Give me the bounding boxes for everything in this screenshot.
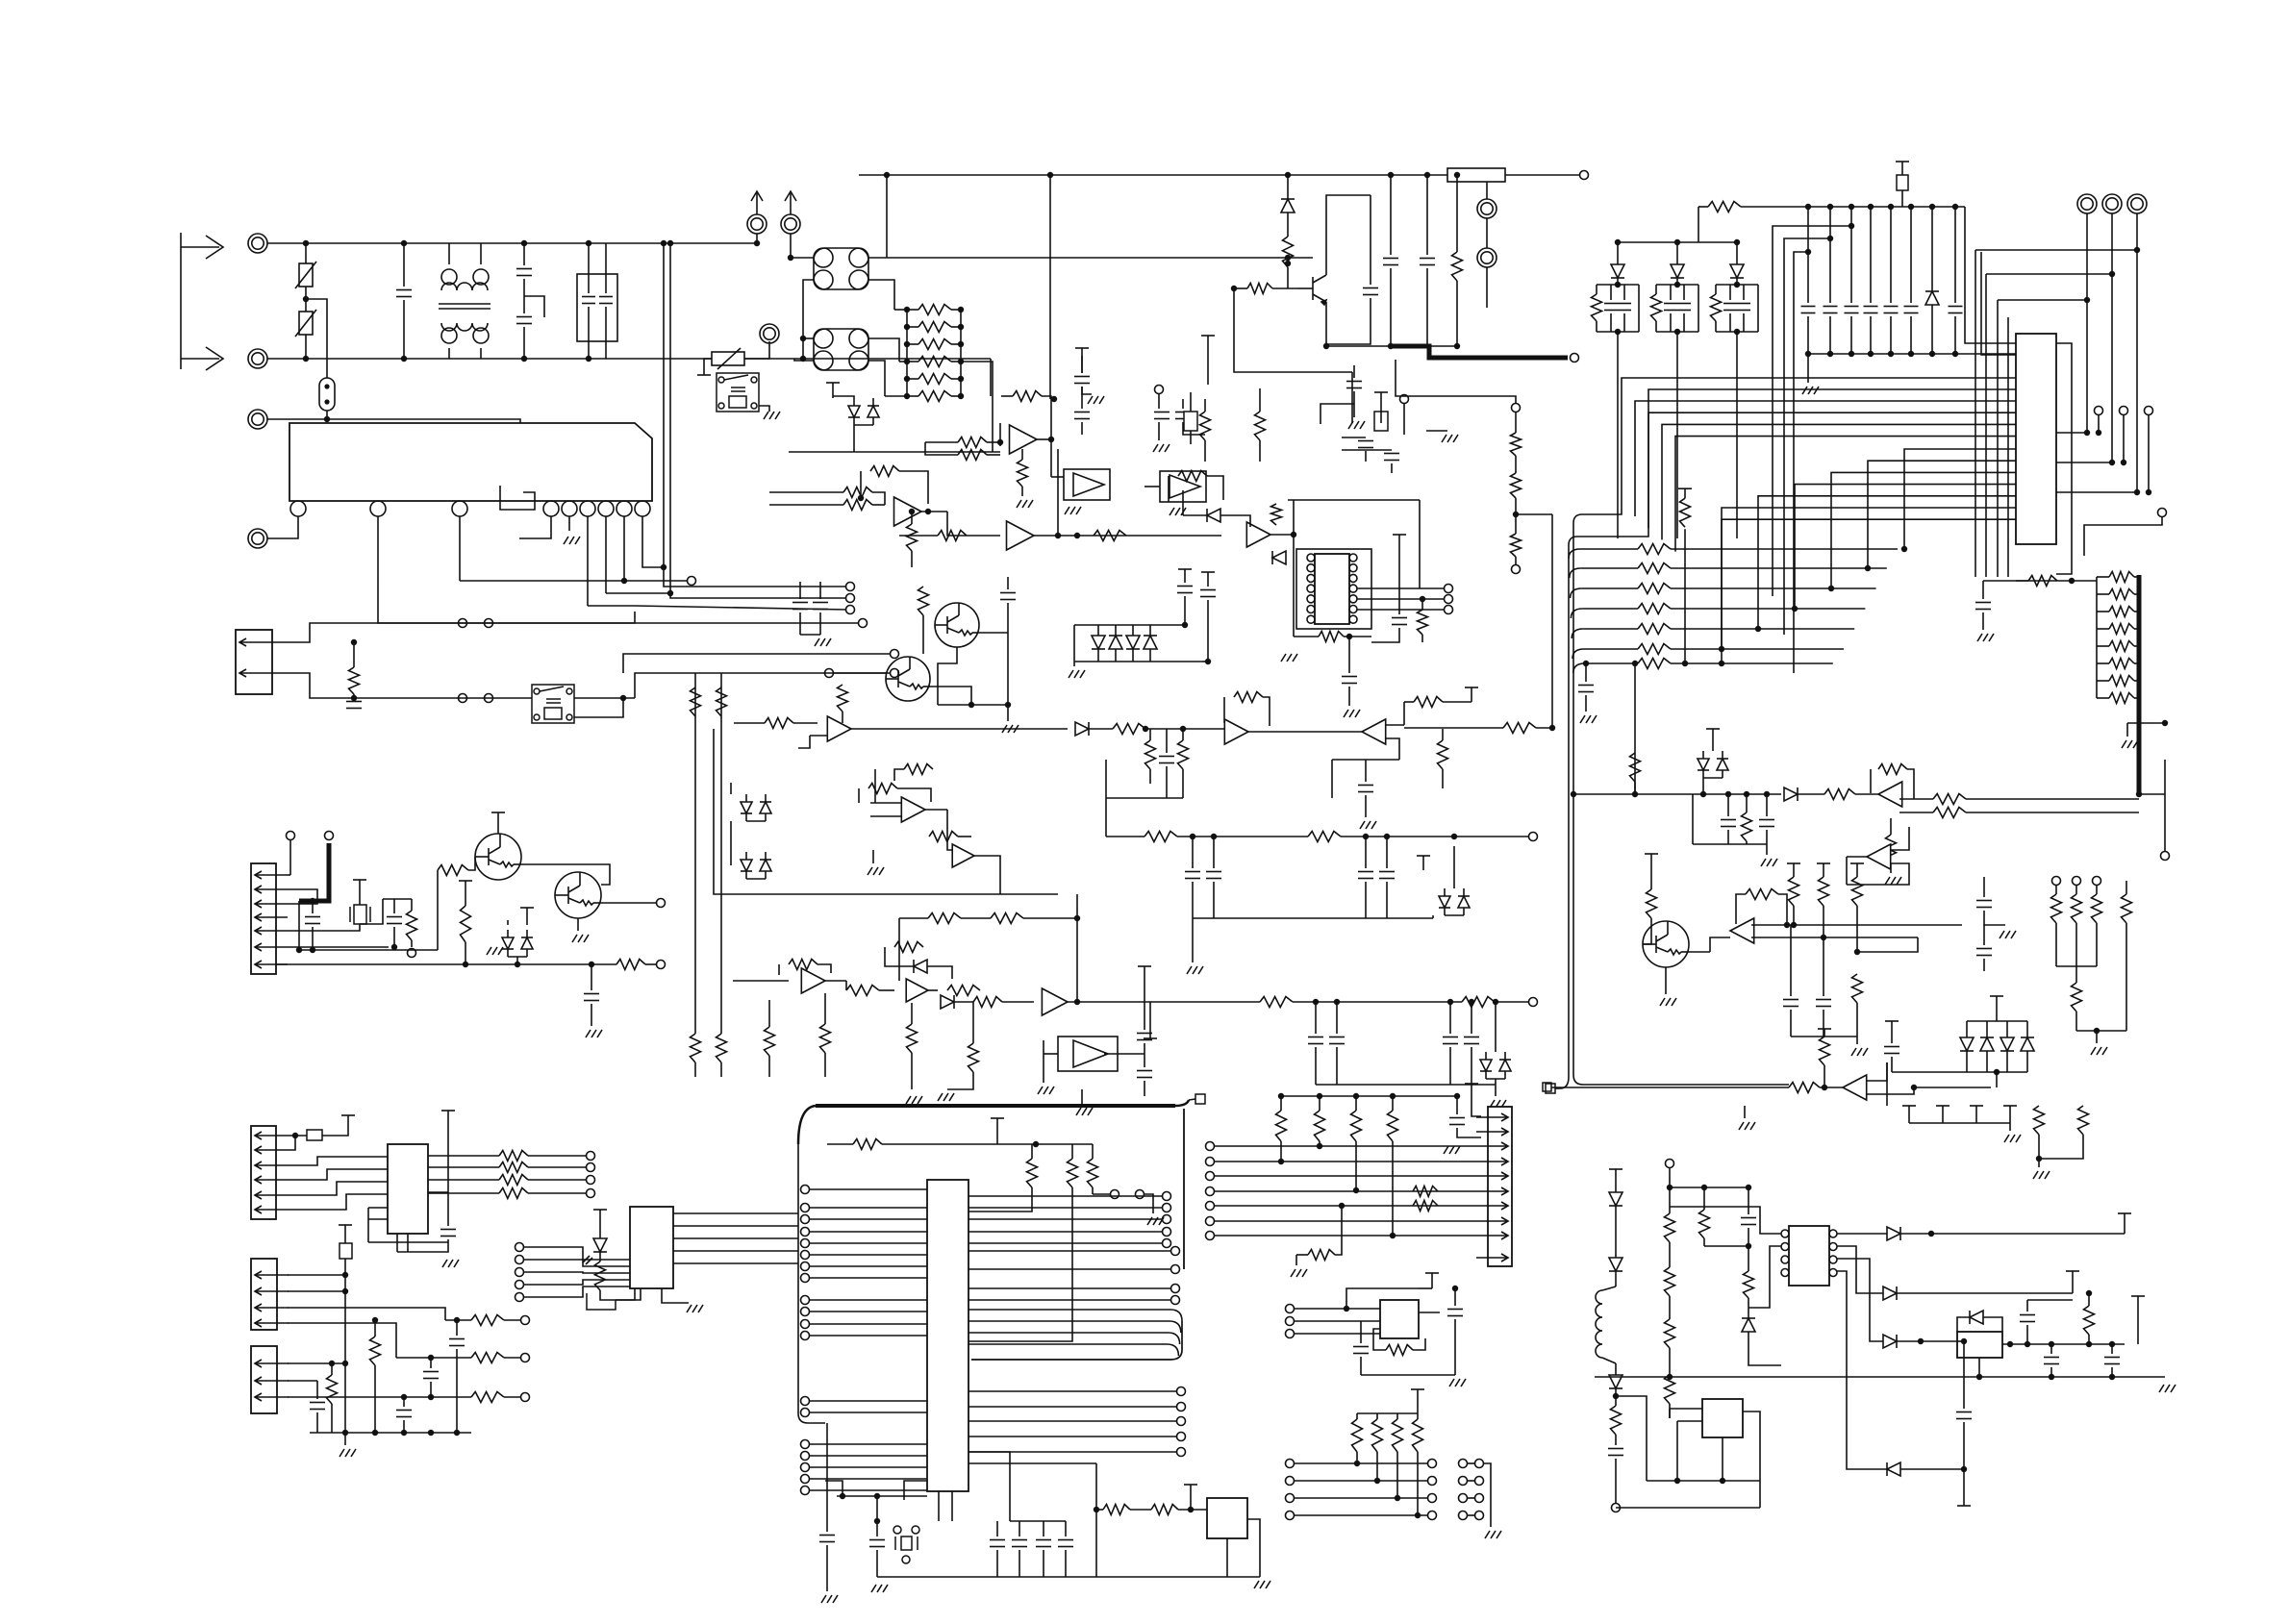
resistor R136 [1819, 877, 1829, 906]
ground [871, 1585, 888, 1592]
wire [904, 1481, 927, 1500]
resistor R74 [1511, 534, 1522, 557]
wire MCU fan bundle [971, 1321, 1182, 1360]
node tp MCU [801, 1215, 810, 1224]
node junction [1374, 1478, 1380, 1484]
wire row1131 [1551, 1087, 1789, 1088]
resistor R198 [1393, 1419, 1403, 1452]
resistor R170 [499, 1151, 528, 1162]
wire [1390, 175, 1392, 255]
wire [967, 535, 1000, 537]
node tp MCU [801, 1204, 810, 1212]
resistor R151 [2109, 589, 2134, 600]
wire [1319, 1141, 1321, 1146]
resistor R205 [1699, 1210, 1710, 1238]
wire to fuse [306, 299, 327, 378]
wire [1207, 476, 1223, 500]
wire [428, 1166, 499, 1168]
wire row r [1671, 648, 1844, 650]
wire rowJ [1215, 1220, 1476, 1222]
wire [1365, 882, 1367, 918]
wire [1360, 1321, 1362, 1343]
wire [2016, 580, 2097, 582]
wire U1 pin3 down [459, 516, 461, 581]
wire [899, 361, 907, 362]
node terminal [1445, 606, 1453, 614]
wire [1021, 487, 1023, 496]
node terminal [485, 619, 493, 628]
resistor R55 [1255, 412, 1266, 440]
wire [1449, 1047, 1451, 1085]
wire [524, 1280, 630, 1285]
wire [528, 1192, 587, 1194]
wire rowJ [1215, 1205, 1476, 1207]
diode D70 [1960, 1037, 1974, 1051]
wire row1190 [882, 1143, 1093, 1145]
capacitor C94 [1976, 949, 1992, 956]
wire [1443, 701, 1471, 703]
wire [1996, 1004, 1998, 1021]
wire [445, 1319, 471, 1321]
wire U6 out2 [1357, 598, 1445, 600]
wire [2026, 1325, 2028, 1344]
wire U16 out [673, 1250, 798, 1252]
wire U16 out [673, 1237, 798, 1239]
wire [1743, 313, 1745, 332]
stub [1957, 1469, 1971, 1506]
wire [1182, 729, 1184, 740]
resistor R24 [616, 960, 645, 970]
wire rail1490 [310, 1432, 471, 1434]
node tp [1155, 386, 1164, 394]
wire [360, 899, 383, 924]
node junction [1764, 791, 1770, 797]
resistor R40 [1283, 237, 1294, 267]
wire Lbus3 [1998, 299, 2088, 301]
ground [906, 1096, 922, 1104]
wire [1096, 1576, 1260, 1578]
node tp [1512, 565, 1521, 574]
wire rowJ [1215, 1175, 1476, 1177]
wire E5 to U1 [267, 516, 298, 538]
ground [1449, 1379, 1466, 1387]
wire [1468, 1514, 1474, 1516]
connector screw [2127, 194, 2147, 213]
node junction [1513, 512, 1519, 517]
wire [1149, 769, 1151, 784]
wire [445, 1396, 471, 1398]
wire [1471, 1002, 1472, 1034]
node U6 pinR [1349, 615, 1357, 623]
wire rowK [1295, 1497, 1427, 1499]
wire [1484, 1463, 1491, 1527]
ground [764, 412, 780, 419]
wire bus lower [1795, 485, 2016, 609]
wire [1486, 218, 1488, 248]
node junction [1908, 204, 1914, 210]
node junction [1928, 1231, 1934, 1237]
wire row1128 [1583, 1084, 1789, 1086]
wire [1900, 1468, 1964, 1470]
node junction [958, 324, 964, 330]
diode D86 [1883, 1287, 1897, 1300]
wire [1326, 298, 1371, 344]
diode D41 [1671, 264, 1684, 278]
node U20 pinL [1781, 1256, 1789, 1263]
wire [1829, 316, 1831, 354]
wire [1419, 1287, 1432, 1289]
wire [1710, 937, 1730, 952]
wire [1846, 1468, 1848, 1470]
wire relay右 [759, 406, 769, 412]
wire [1456, 175, 1458, 252]
node junction [1719, 646, 1724, 652]
wire [393, 899, 395, 913]
wire row corner [1572, 649, 1584, 659]
wire row corner [1573, 663, 1585, 673]
capacitor C122 [2020, 1315, 2035, 1322]
wire [1744, 1106, 1746, 1118]
wire [353, 694, 355, 698]
wire Q1->Q2 [521, 864, 610, 885]
wire [951, 361, 961, 362]
node T1 pin4 [473, 328, 489, 343]
wire [1092, 1144, 1094, 1159]
wire [2075, 886, 2077, 894]
diode D84 [1742, 1318, 1755, 1332]
wire ladder R bold [2137, 575, 2142, 596]
op-amp U8B [906, 979, 928, 1002]
node junction [1827, 204, 1833, 210]
capacitor CX1 [396, 290, 412, 297]
transistor Q1 [475, 834, 521, 880]
wire [817, 964, 831, 973]
node terminal [1445, 595, 1453, 604]
wire [1829, 207, 1831, 303]
wire [1748, 1228, 1749, 1246]
node tp MCU [801, 1452, 810, 1461]
wire row corner [1572, 629, 1583, 638]
wire [1421, 635, 1423, 642]
wire [885, 395, 907, 397]
wire [1615, 1395, 1617, 1397]
wire [1890, 207, 1892, 303]
node junction [1074, 999, 1080, 1005]
wire [1456, 281, 1458, 346]
node tp [1206, 1232, 1215, 1240]
resistor R133 [1630, 753, 1641, 782]
wire [599, 1252, 601, 1262]
wire [1901, 188, 1903, 207]
node tp [1163, 1215, 1171, 1224]
node junction [1888, 351, 1894, 357]
node tp [2093, 877, 2101, 886]
ground [1885, 877, 1901, 885]
wire rail688 [1074, 661, 1202, 662]
resistor R130 [1933, 794, 1966, 805]
stub [1787, 863, 1800, 877]
node tp1 [287, 832, 295, 840]
wire [1247, 1519, 1260, 1577]
wire [1392, 1141, 1394, 1236]
wire [1602, 1358, 1616, 1363]
node junction [1415, 1512, 1421, 1518]
capacitor [346, 702, 362, 709]
ground [1802, 387, 1819, 394]
wire [2111, 1367, 2113, 1377]
node tp [1286, 1460, 1295, 1468]
wire [898, 918, 900, 981]
node junction [1051, 396, 1057, 402]
wire [1043, 1550, 1044, 1577]
wire [1403, 702, 1405, 725]
node bracket U1 [500, 486, 535, 510]
wire pad corner [1560, 1077, 1569, 1088]
wire rail215 [1741, 206, 1965, 208]
wire E line [267, 419, 520, 423]
node terminal [459, 619, 467, 628]
node junction [1390, 1233, 1396, 1238]
wire [326, 411, 328, 419]
wire rail1296 [1704, 1245, 1748, 1247]
node junction [2162, 720, 2168, 726]
node U6 pinR [1349, 564, 1357, 572]
connector CN4 [251, 1126, 288, 1219]
resistor R63 [907, 524, 918, 551]
diode D14 [1272, 551, 1286, 564]
wire [1396, 1452, 1398, 1498]
capacitor C80 [1884, 307, 1899, 313]
resistor R94 [973, 997, 1002, 1008]
wire Ltap2 [1784, 238, 1830, 635]
node T1 pin1 [441, 269, 457, 285]
node junction [1734, 329, 1740, 335]
diode D34 [1075, 722, 1089, 736]
wire [972, 1002, 974, 1043]
node junction [1911, 1085, 1917, 1090]
node junction [1682, 661, 1688, 666]
wire Q2 gnd [577, 918, 579, 931]
wire bus upperB [1569, 389, 2016, 545]
node junction [1143, 726, 1148, 732]
wire pin b [568, 516, 570, 531]
IC U6 [1315, 554, 1349, 624]
connector CN2 [236, 630, 284, 694]
wire [1104, 1053, 1144, 1055]
capacitor C [1379, 872, 1395, 879]
node tp MCU [801, 1332, 810, 1340]
wire fb2 [899, 471, 928, 504]
wire [605, 307, 607, 359]
node rail stub [1178, 569, 1192, 583]
wire [911, 512, 913, 524]
node junction [1420, 596, 1425, 602]
wire [288, 1136, 295, 1150]
ground [1254, 1581, 1270, 1588]
wire [1097, 625, 1099, 636]
resistor R70 [1319, 632, 1344, 642]
wire bus lower [1831, 472, 2016, 588]
wire [396, 1234, 398, 1252]
node tp [516, 1293, 524, 1302]
diode D32 [914, 960, 927, 973]
node tp [1206, 1187, 1215, 1196]
wire [2050, 1367, 2052, 1377]
wire [1207, 600, 1209, 662]
wire [1293, 500, 1295, 535]
node junction [1469, 999, 1474, 1005]
capacitor C62 [1159, 757, 1174, 763]
wire [428, 1179, 499, 1181]
node junction [329, 1361, 335, 1366]
node junction [2109, 460, 2115, 465]
resistor R105 [1414, 697, 1443, 708]
resistor R198 [1413, 1419, 1423, 1452]
node junction [401, 1394, 407, 1400]
wire [1910, 207, 1912, 303]
wire [1616, 1396, 1647, 1481]
node junction [1451, 834, 1457, 839]
wire pin e [623, 516, 625, 581]
wire [1837, 1259, 1883, 1341]
resistor R95 [928, 913, 961, 924]
wire [1392, 1096, 1394, 1111]
node junction [800, 336, 806, 341]
node pad2 [1195, 1094, 1205, 1104]
wire AC bracket [180, 233, 182, 369]
wire [1456, 1096, 1458, 1114]
resistor R120 [1638, 544, 1671, 555]
wire [591, 1004, 592, 1026]
wire [312, 901, 314, 913]
wire [1748, 1298, 1749, 1318]
wire bus upper [1675, 437, 2016, 552]
stub [1817, 863, 1830, 877]
node junction [2086, 1341, 2092, 1347]
node junction [428, 1355, 434, 1361]
capacitor C92b [1816, 1000, 1831, 1007]
resistor R83 [717, 1034, 727, 1062]
fuse F2 [1447, 168, 1505, 182]
capacitor C63 [1358, 786, 1373, 792]
wire [968, 1187, 1072, 1341]
wire row corner [1571, 609, 1582, 618]
capacitor C80 [1864, 307, 1878, 313]
diode pair D30 [741, 794, 771, 821]
node junction [1180, 726, 1186, 732]
node junction [1291, 532, 1296, 537]
wire [947, 810, 952, 850]
node tp [587, 1163, 595, 1172]
wire PC2 bl [794, 359, 814, 361]
node junction [1827, 236, 1833, 241]
wire [827, 1143, 853, 1145]
node tp [859, 619, 868, 628]
node junction [1719, 661, 1724, 666]
wire [1287, 212, 1289, 237]
node junction [1746, 1185, 1751, 1190]
wire cluster top [1597, 284, 1639, 286]
wire [605, 243, 607, 293]
wire [996, 1521, 998, 1537]
connector J1 pin N [248, 349, 267, 368]
capacitor C53 [1358, 441, 1373, 448]
wire [1213, 837, 1215, 868]
wire [1335, 1206, 1342, 1255]
stub [1850, 863, 1864, 877]
wire cn3 r1 [288, 874, 290, 876]
node tp [1428, 1477, 1437, 1486]
wire bold dc [1389, 346, 1568, 358]
wire row1398 [2002, 1343, 2125, 1345]
wire [1144, 1194, 1153, 1213]
wire [2039, 1135, 2083, 1159]
wire [456, 1320, 458, 1336]
resistor R106 [1144, 832, 1177, 842]
wire [1192, 837, 1194, 868]
wire [1486, 267, 1488, 308]
wire [2027, 1299, 2073, 1301]
wire [428, 1191, 448, 1193]
wire cluster bot [1716, 331, 1758, 333]
wire CN2 row3 [623, 654, 891, 673]
node junction [904, 376, 910, 382]
wire [1442, 769, 1444, 788]
wire U3 in [1144, 486, 1160, 487]
resistor R192 [1351, 1111, 1362, 1141]
resistor R10 [349, 667, 360, 694]
op-amp U12B [1867, 844, 1891, 869]
wire Q2 out [601, 902, 657, 904]
wire row757 [1404, 727, 1503, 729]
wire cluster bot [1597, 331, 1639, 333]
node tp [1163, 1204, 1171, 1212]
node junction [401, 240, 407, 246]
wire [1743, 285, 1745, 300]
wire [876, 1550, 878, 1577]
wire [288, 1308, 445, 1320]
wire [1703, 1238, 1705, 1246]
wire [1332, 759, 1399, 761]
wire rowK [1295, 1480, 1427, 1482]
wire [799, 582, 801, 599]
wire [1166, 766, 1168, 798]
wire loop pad corner [1175, 1100, 1189, 1106]
resistor R41 [1247, 284, 1272, 294]
wire MCU fan [968, 1310, 1182, 1321]
wire [1698, 285, 1699, 332]
wire [2097, 645, 2109, 647]
wire [1748, 1187, 1749, 1214]
wire row corner [1571, 588, 1582, 598]
node junction [2146, 489, 2151, 495]
wire bold feed [299, 843, 329, 901]
wire row [1581, 567, 1638, 569]
wire bus lower [1868, 461, 2016, 568]
wire [2096, 886, 2098, 894]
wire [1857, 937, 1918, 952]
node junction [904, 324, 910, 330]
node terminal [657, 961, 666, 969]
node tp [408, 949, 416, 958]
wire rail1168 [1909, 1122, 2010, 1124]
op-amp U9 buffer [1058, 1037, 1118, 1071]
wire [1355, 1141, 1357, 1190]
node U6 pinR [1349, 585, 1357, 592]
wire [968, 1462, 1096, 1464]
wire [1515, 456, 1517, 473]
wire [1982, 612, 1984, 630]
